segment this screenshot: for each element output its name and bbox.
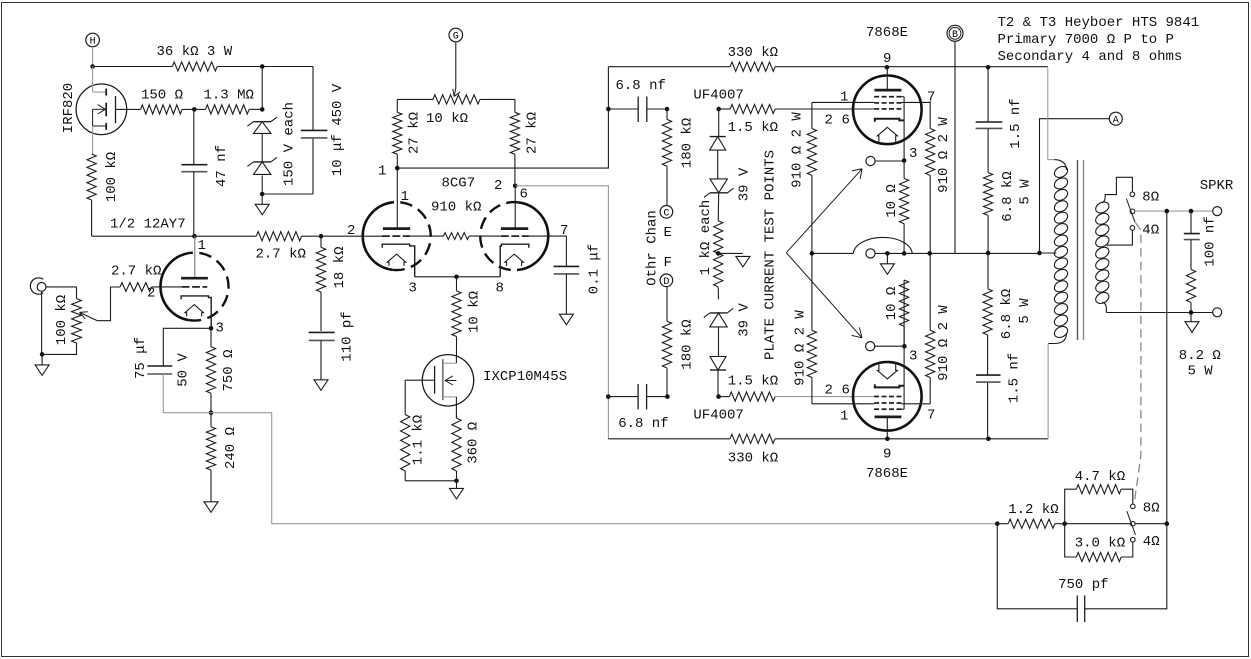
wire pot bottom [42,343,76,354]
wire B down [954,41,956,253]
label F [664,255,672,271]
tube V3 plate [875,67,902,90]
node 750-240 junction [209,410,214,415]
label 5 W top [1018,179,1034,205]
resistor 1 kOhm upper [714,193,723,254]
wire zeners middle [261,133,263,162]
node 6.8nf top left [606,107,611,112]
svg-text:5 W: 5 W [1018,179,1034,205]
label 910 Ohm 2 W top-left [790,112,806,188]
label pin 3 bottom [909,349,917,365]
wire center tap [1040,252,1057,254]
node 12AY7 plate junction [192,234,197,239]
resistor 6.8 kOhm bottom [983,253,992,335]
tube V4 heater [877,364,897,379]
node 180k bottom [665,394,670,399]
svg-text:910 Ω 2 W: 910 Ω 2 W [793,310,809,386]
input jack [30,278,46,294]
annotation arrow bottom [786,253,862,338]
ground below 110pf [314,380,328,391]
capacitor 47 nf [181,109,207,236]
wire test point mid [875,252,912,254]
label 8 Ohm output [1142,189,1159,205]
svg-text:4Ω: 4Ω [1142,223,1159,239]
wire plate2 to lower 6.8nf [515,186,608,439]
wire pin7 lead bottom [901,403,930,405]
tube V2a envelope [363,202,431,270]
wire speaker return [1106,312,1212,314]
resistor 1.3 MOhm [206,105,250,114]
label 1 kOhm each [698,200,714,276]
transistor IXCP10M45S internals [405,355,456,418]
label 750 Ohm [221,349,237,391]
svg-text:18 kΩ: 18 kΩ [332,246,348,288]
node zobel tap [1189,209,1194,214]
label 6.8 nf top [616,78,666,94]
svg-text:1.5 kΩ: 1.5 kΩ [728,374,778,390]
svg-text:6: 6 [842,383,850,399]
wire 150R to 1.3M [182,108,206,110]
terminal B [947,25,963,41]
wire top rail left [93,66,173,68]
label 10 Ohm bottom [884,287,900,321]
resistor 330 kOhm top [608,62,1047,71]
wire feedback tap down [1166,211,1168,524]
ground below 240R [204,502,218,513]
svg-text:8Ω: 8Ω [1142,189,1159,205]
transistor IRF820 internals [93,67,116,155]
label 910 Ohm 2 W bottom-right [936,305,952,381]
svg-text:3: 3 [409,281,417,297]
resistor 180 kOhm top [662,109,671,205]
wire mid rail right [912,252,1039,254]
resistor 8.2 Ohm [1186,269,1195,312]
wire secondary 4ohm tap [1106,230,1132,245]
node zobel ground [1189,310,1194,315]
label 1/2 12AY7 [110,217,186,233]
svg-text:1: 1 [198,238,206,254]
svg-text:2.7 kΩ: 2.7 kΩ [256,247,306,263]
svg-text:9: 9 [883,51,891,67]
label 39 V top [737,167,753,201]
svg-text:750 Ω: 750 Ω [221,349,237,391]
svg-text:10 Ω: 10 Ω [884,184,900,218]
svg-text:6.8 nf: 6.8 nf [618,416,668,432]
label 180 kOhm top [680,118,696,168]
resistor 180 kOhm bottom [662,287,671,397]
node 6.8k top rail [986,65,991,70]
svg-text:Othr Chan: Othr Chan [645,210,661,286]
label 0.1 uf [587,244,603,294]
terminal G [449,28,463,42]
wire zener to diode bottom [718,327,720,357]
svg-text:910 Ω 2 W: 910 Ω 2 W [936,305,952,381]
node plate2 junction [513,184,518,189]
label pin 2 bottom [825,383,833,399]
svg-text:910 Ω 2 W: 910 Ω 2 W [936,117,952,193]
label IXCP10M45S [483,369,567,385]
wire 2.7k to 8CG7 grid [302,235,382,237]
node 1k midpoint [716,251,721,256]
resistor 1.5 kOhm bottom [719,392,776,401]
wire test point bottom [875,345,905,347]
node zener top [260,107,265,112]
label pin 6 top [842,113,850,129]
wire test point top [875,160,904,162]
node 150R-1.3M junction [192,107,197,112]
node feedback divider [1062,521,1067,526]
mechanical link dashed [1134,223,1141,505]
zener D2 150V [247,157,277,174]
tube V1 plate [181,236,208,278]
tube V4 7868E envelope [853,362,922,431]
svg-text:100 nf: 100 nf [1203,216,1219,266]
transistor IRF820 body [76,84,127,135]
svg-text:2: 2 [347,223,355,239]
capacitor 110 pf [309,332,335,379]
wire A to center tap [1040,119,1110,253]
terminal H [86,33,100,47]
wire node to 1.5k top [719,108,730,110]
test point mid [866,249,875,258]
label 1.2 kOhm [1008,502,1058,518]
wire pin7 lead top [901,101,930,103]
note T2 T3 line1 [998,15,1200,31]
label 1.5 kOhm top [728,120,778,136]
switch contact 8 Ohm output [1130,192,1135,197]
diode UF4007 top [710,109,726,150]
ground mid test point [880,253,894,274]
svg-text:330 kΩ: 330 kΩ [728,451,778,467]
wire junction to 1.3M [261,67,263,110]
svg-text:5 W: 5 W [1188,364,1214,380]
ground below 360R [450,481,464,499]
capacitor 1.5 nf bottom [976,335,1001,439]
svg-text:1: 1 [840,409,848,425]
label 750 pf [1058,577,1108,593]
resistor 1.2 kOhm [1008,519,1055,528]
svg-text:9: 9 [883,447,891,463]
wire G to pot wiper [453,42,460,97]
tube V1 12AY7 envelope [161,253,229,321]
resistor 4.7 kOhm [1076,485,1121,494]
wire grid bridge right [469,235,501,237]
wire 1.5k top to grid [775,108,874,110]
svg-text:180 kΩ: 180 kΩ [680,319,696,369]
switch blade fb [1127,511,1136,535]
capacitor 75 uf [147,328,211,412]
label pin 1 bottom [840,409,848,425]
label 47 nf [214,145,230,187]
tube V2a plate [383,168,410,229]
wire wiper to grid resistor [97,287,120,321]
terminal C [660,206,673,220]
label pin 9 top [883,51,891,67]
ground speaker return [1185,313,1199,333]
label UF4007 bottom [693,408,743,424]
tube V1 grid [152,286,208,288]
switch contact 8 Ohm fb [1131,504,1136,509]
resistor 240 Ohm [206,413,215,502]
label pin 3 V2a [409,281,417,297]
switch contact 4 Ohm fb [1131,537,1136,542]
svg-text:F: F [664,255,672,271]
svg-text:8Ω: 8Ω [1143,501,1160,517]
svg-text:3: 3 [909,146,917,162]
node 36k right junction [260,64,265,69]
wire pin3 lead bottom [901,346,904,409]
svg-text:T2 & T3 Heyboer HTS 9841: T2 & T3 Heyboer HTS 9841 [998,15,1200,31]
wire primary top feed [1048,67,1055,159]
wire primary bottom feed [1047,344,1049,439]
svg-text:50 V: 50 V [176,353,192,387]
svg-text:E: E [664,225,672,241]
resistor 10 kOhm cathode [452,277,461,355]
note T2 T3 line2 [998,32,1174,48]
wire jack to pot [46,287,77,299]
svg-text:39 V: 39 V [737,303,753,337]
resistor 150 Ohm [141,105,182,114]
diode UF4007 bottom [710,357,726,397]
wire mid rail left [812,252,853,254]
transformer T2 secondary winding [1094,196,1111,313]
label pin 3 top [909,146,917,162]
svg-text:3.0 kΩ: 3.0 kΩ [1075,535,1125,551]
resistor 330 kOhm bottom [608,434,1048,443]
node plate top tube [885,65,890,70]
node plate1 junction [395,166,400,171]
label 4 Ohm output [1142,223,1159,239]
svg-text:330 kΩ: 330 kΩ [728,45,778,61]
label 39 V bottom [737,303,753,337]
resistor 10 Ohm bottom [900,280,909,346]
transistor IXCP10M45S body [422,355,473,406]
transformer T2 primary winding [1048,160,1069,344]
node zener ground junction [260,192,265,197]
node 6.8k bottom rail [986,437,991,442]
capacitor 750 pf [997,524,1167,622]
label 50 V [176,353,192,387]
svg-text:UF4007: UF4007 [693,87,743,103]
wire 3.0k to 4ohm contact [1121,542,1133,557]
svg-text:8.2 Ω: 8.2 Ω [1179,348,1221,364]
wire mid rail hop [853,237,912,253]
label 75 uf [133,337,149,379]
svg-text:1.2 kΩ: 1.2 kΩ [1008,502,1058,518]
node cathode bracket [454,275,459,280]
svg-text:150 V each: 150 V each [282,102,298,186]
svg-text:27 kΩ: 27 kΩ [407,112,423,154]
label Othr Chan [645,210,661,286]
node 18k junction [319,234,324,239]
svg-text:IRF820: IRF820 [61,83,77,133]
resistor 27 kOhm left [393,99,402,168]
svg-text:3: 3 [909,349,917,365]
svg-text:IXCP10M45S: IXCP10M45S [483,369,567,385]
capacitor 6.8 nf bottom [608,384,667,410]
resistor 100 kOhm source [87,154,96,200]
svg-text:2.7 kΩ: 2.7 kΩ [111,264,161,280]
label pin 3 12AY7 [216,321,224,337]
svg-text:6: 6 [842,113,850,129]
label 5 W zobel [1188,364,1214,380]
resistor 36 kOhm 3 W [172,62,217,71]
node H rail junction [90,64,95,69]
label 910 Ohm 2 W bottom-left [793,310,809,386]
node speaker feedback tap [1165,209,1170,214]
capacitor 10 uf 450 V [301,130,328,138]
resistor 750 Ohm [206,328,215,412]
svg-text:5 W: 5 W [1017,298,1033,324]
resistor 1.5 kOhm top [730,104,775,113]
node pin3 top [902,158,907,163]
label SPKR [1200,178,1234,194]
wire 1.3M to zener node [249,108,262,110]
tube V2a grid [382,235,410,237]
wire 4.7k branch [1065,489,1077,524]
tube V1 heater [185,305,204,317]
tube V3 heater [877,127,897,142]
resistor 10 Ohm top [900,161,909,253]
label 10 kOhm cathode [467,291,483,333]
svg-text:3: 3 [216,321,224,337]
svg-text:75 μf: 75 μf [133,337,149,379]
svg-text:240 Ω: 240 Ω [223,427,239,469]
label pin 2 12AY7 [147,286,155,302]
resistor 360 Ohm [452,414,461,481]
wire gate to 150R [116,108,141,110]
node diode string bottom [716,394,721,399]
capacitor 0.1 uf [554,236,580,314]
label 6.8 kOhm bottom [999,289,1015,339]
svg-text:7868E: 7868E [866,466,908,482]
svg-text:6.8 kΩ: 6.8 kΩ [1000,171,1016,221]
label 150 Ohm [141,87,183,103]
svg-text:6: 6 [520,187,528,203]
wire 100k to main wire [92,200,195,236]
node mid rail 910R right [927,251,932,256]
ground input jack [35,354,49,375]
resistor 910 Ohm bottom-right [926,253,935,404]
label 360 Ohm [466,422,482,464]
ground below 0.1uf [559,314,573,325]
svg-text:G: G [453,32,459,43]
node 360R ground [454,479,459,484]
label 6.8 nf bottom [618,416,668,432]
svg-text:6.8 nf: 6.8 nf [616,78,666,94]
label 4.7 kOhm [1075,469,1125,485]
note T2 T3 line3 [998,49,1183,65]
tube V4 grid3 [874,396,901,398]
label PLATE CURRENT TEST POINTS [763,150,779,360]
label 1.5 nf bottom [1007,353,1023,403]
label 10 kOhm pot [426,111,468,127]
label 180 kOhm bottom [680,319,696,369]
svg-text:1.5 nf: 1.5 nf [1008,98,1024,148]
wire secondary top to 8ohm tap [1105,177,1132,196]
svg-text:100 kΩ: 100 kΩ [104,152,120,202]
node 6.8k mid rail [986,251,991,256]
label 10 Ohm top [884,184,900,218]
label node 1 [378,164,386,180]
svg-text:7: 7 [927,408,935,424]
capacitor 100 nf [1184,211,1200,269]
tube V1 cathode [181,296,211,328]
label 330 kOhm top [728,45,778,61]
label 2.7 kOhm grid [111,264,161,280]
label 330 kOhm bottom [728,451,778,467]
switch blade output [1126,199,1135,223]
tube V3 cathode [875,119,904,122]
resistor 910 Ohm top-right [926,101,935,253]
svg-text:27 kΩ: 27 kΩ [525,112,541,154]
svg-text:0.1 μf: 0.1 μf [587,244,603,294]
terminal A [1109,112,1122,126]
terminal D [660,274,673,288]
capacitor 1.5 nf top [976,67,1003,172]
svg-text:8: 8 [496,281,504,297]
label 8 Ohm fb [1143,501,1160,517]
potentiometer 10 kOhm [397,95,515,104]
label 8.2 Ohm [1179,348,1221,364]
label 1.3 MOhm [204,87,254,103]
svg-text:47 nf: 47 nf [214,145,230,187]
resistor 27 kOhm right [510,99,519,185]
node pin3 bottom [902,344,907,349]
svg-text:36 kΩ 3 W: 36 kΩ 3 W [157,44,233,60]
tube V2b cathode [500,244,529,277]
svg-text:910 Ω 2 W: 910 Ω 2 W [790,112,806,188]
svg-text:1.5 kΩ: 1.5 kΩ [728,120,778,136]
resistor 910 kOhm [444,233,470,240]
svg-text:1.3 MΩ: 1.3 MΩ [204,87,254,103]
label pin 7 bottom [927,408,935,424]
terminal speaker hot [1213,207,1222,216]
wire jack sleeve down [41,291,43,354]
resistor 2.7 kOhm grid [120,283,152,292]
svg-text:1.1 kΩ: 1.1 kΩ [411,415,427,465]
svg-text:180 kΩ: 180 kΩ [680,118,696,168]
svg-text:10 μf 450 V: 10 μf 450 V [330,83,346,176]
svg-text:4.7 kΩ: 4.7 kΩ [1075,469,1125,485]
tube V3 grid1 [874,96,901,98]
svg-text:SPKR: SPKR [1200,178,1234,194]
label 2.7 kOhm coupling [256,247,306,263]
node feedback tap [1165,521,1170,526]
label pin 8 V2b [496,281,504,297]
wire feedback to 1.2k [997,523,1008,525]
svg-text:7: 7 [560,223,568,239]
terminal speaker return [1213,308,1222,317]
label 100 nf [1203,216,1219,266]
tube V4 plate [875,417,902,439]
wire 1.5k bottom to grid [775,396,874,398]
svg-text:1: 1 [840,89,848,105]
label pin 1 top [840,89,848,105]
node plate bottom tube [885,437,890,442]
zener D1 150V [247,117,277,133]
ground 1k midpoint [718,253,750,267]
svg-text:4Ω: 4Ω [1143,534,1160,550]
label 150 V each [282,102,298,186]
node mid 10R [902,251,907,256]
label pin 2 V2a [347,223,355,239]
tube V3 7868E envelope [853,76,922,145]
node A mid rail [1037,251,1042,256]
label 240 Ohm [223,427,239,469]
svg-text:PLATE CURRENT TEST POINTS: PLATE CURRENT TEST POINTS [763,150,779,360]
zener 39V bottom [704,308,733,327]
